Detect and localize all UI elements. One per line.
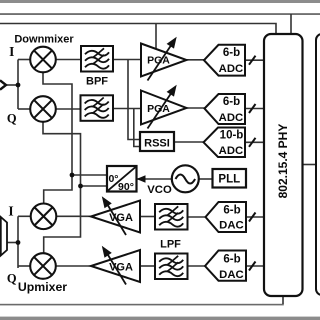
svg-text:DAC: DAC	[219, 220, 243, 232]
svg-text:DAC: DAC	[219, 269, 243, 281]
svg-text:BPF: BPF	[86, 76, 108, 88]
svg-text:Q: Q	[7, 112, 17, 126]
svg-text:Downmixer: Downmixer	[14, 33, 74, 45]
svg-text:LPF: LPF	[160, 239, 181, 251]
svg-text:Q: Q	[7, 272, 17, 286]
svg-text:Upmixer: Upmixer	[18, 280, 67, 294]
svg-text:I: I	[8, 204, 13, 219]
svg-text:6-b: 6-b	[223, 96, 240, 108]
svg-text:ADC: ADC	[219, 112, 243, 124]
svg-text:6-b: 6-b	[223, 204, 240, 216]
svg-text:90°: 90°	[118, 181, 134, 193]
svg-text:VGA: VGA	[109, 212, 133, 224]
svg-text:PGA: PGA	[147, 103, 170, 115]
svg-text:RSSI: RSSI	[144, 138, 170, 150]
svg-text:10-b: 10-b	[220, 130, 244, 142]
svg-text:VCO: VCO	[147, 184, 172, 196]
svg-text:ADC: ADC	[219, 145, 243, 157]
svg-text:ADC: ADC	[219, 63, 243, 75]
svg-text:6-b: 6-b	[223, 47, 240, 59]
svg-text:PGA: PGA	[147, 54, 170, 66]
svg-text:802.15.4 PHY: 802.15.4 PHY	[276, 124, 290, 199]
svg-text:PLL: PLL	[218, 174, 240, 186]
svg-text:6-b: 6-b	[223, 253, 240, 265]
svg-text:0°: 0°	[108, 173, 118, 185]
svg-text:I: I	[9, 44, 14, 59]
svg-text:VGA: VGA	[109, 261, 133, 273]
